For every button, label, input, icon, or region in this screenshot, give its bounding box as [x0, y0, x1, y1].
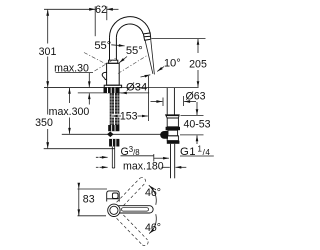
plan body [107, 191, 120, 202]
spout inner arc [116, 24, 143, 37]
aerator cap [143, 33, 150, 40]
wire 301/350 vertical dimension line [47, 10, 49, 12]
wire O63 extension left [162, 98, 164, 107]
svg-text:46°: 46° [145, 222, 161, 234]
wire 153 extension line [147, 76, 149, 121]
dashed swivel spout up line1 [117, 178, 140, 202]
wire 205 dimension lower arrow [197, 70, 199, 87]
wire 40-53 upper arrow [196, 102, 198, 115]
55 left leader arrow [111, 45, 124, 46]
svg-text:Ø63: Ø63 [185, 91, 205, 103]
base plate [104, 85, 121, 87]
wire 40-53 lower arrow [196, 135, 198, 144]
svg-text:max.180: max.180 [123, 161, 164, 173]
wire extension line A x=95.2 [94, 6, 96, 36]
wire 205 dimension upper arrow [197, 39, 199, 53]
wire 46 upper angle arc [149, 185, 156, 205]
wire 40-53 top extension [181, 115, 204, 117]
spout outer arc [109, 17, 150, 38]
svg-text:G11/4: G11/4 [180, 144, 210, 157]
dashed swivel spout down line2 [123, 215, 147, 240]
svg-text:max.300: max.300 [49, 106, 90, 118]
riser tube right line [115, 37, 117, 60]
dashed line right [118, 56, 147, 74]
drain tailpipe [170, 144, 172, 179]
svg-text:301: 301 [39, 46, 57, 58]
55 right leader arrow [119, 57, 127, 63]
pop-up rod [62, 133, 166, 135]
wire 83 dimension line [78, 189, 80, 216]
wire max.30 upper arrow [88, 73, 90, 88]
svg-text:83: 83 [83, 194, 95, 206]
svg-text:55°: 55° [126, 45, 143, 57]
svg-text:350: 350 [35, 117, 53, 129]
10 degree leader arrow [157, 67, 164, 72]
plan body line [107, 198, 120, 200]
mounting flange black [104, 88, 120, 93]
plan spout tube [119, 206, 154, 213]
wire O63 arrow right [184, 101, 196, 103]
wire G38 left arrow [96, 156, 102, 158]
wire max180 line to pipe [162, 166, 170, 168]
svg-text:62: 62 [95, 4, 107, 16]
wire 40-53 bottom extension [180, 134, 204, 136]
water stream line right [151, 40, 155, 74]
drain band2 black [167, 141, 180, 144]
drain flange [166, 115, 180, 118]
svg-text:max.30: max.30 [54, 62, 89, 74]
svg-text:153: 153 [120, 111, 138, 123]
plan view [78, 184, 108, 216]
rod joint diamond [107, 132, 114, 138]
wire top dimension line 62 left part [44, 8, 95, 10]
collar [109, 60, 118, 63]
wire extension line B x=106.8 [106, 6, 108, 20]
wire 83 upper arrow [78, 184, 80, 189]
riser tube left line [109, 37, 111, 60]
wire max.30 lower arrow [88, 93, 90, 104]
dashed handle open line upper-left [84, 53, 107, 65]
swivel ring outer [108, 204, 120, 216]
wire deck top line [44, 87, 199, 89]
wire 153 left arrow [112, 115, 121, 117]
wire 153 left arrow halo [111, 114, 121, 117]
plan body knob [112, 193, 118, 199]
dashed swivel down cap [142, 240, 148, 246]
svg-text:46°: 46° [145, 187, 161, 199]
wire max180 right arrow [176, 166, 187, 168]
lever handle hook [102, 72, 106, 79]
drain seal band black [166, 127, 180, 130]
wire 83 lower arrow [78, 210, 80, 216]
wire O34 leader arrow [121, 92, 127, 94]
wire bottom reference line 350 [44, 148, 115, 150]
wire max.300 upper arrow [69, 88, 71, 103]
wire G38 right tick [153, 154, 155, 162]
wire max.30 shelf line [56, 72, 94, 74]
wire deck extension left [44, 87, 104, 89]
wire O63 extension right [183, 96, 185, 106]
dashed swivel up cap [140, 178, 146, 184]
svg-text:G3/8: G3/8 [121, 145, 140, 158]
svg-text:40-53: 40-53 [183, 118, 210, 130]
faucet body [107, 63, 120, 85]
svg-text:Ø34: Ø34 [126, 82, 147, 94]
drain lower section [168, 130, 178, 136]
swivel ring inner [110, 206, 118, 214]
wire G38 underline [121, 155, 154, 157]
supply hose [112, 147, 114, 169]
drain fitting tube above flange [166, 88, 180, 178]
drain ball joint black [160, 131, 168, 139]
wire aerator height extension line [152, 37, 206, 39]
dashed line mid [95, 58, 117, 71]
153 dimension [111, 76, 148, 121]
shank nut black [108, 125, 119, 131]
wire max180 left arrow [96, 166, 99, 168]
wire top dimension line 62 right part [107, 8, 119, 10]
dashed swivel spout down line1 [117, 218, 143, 245]
water stream line left [145, 40, 153, 74]
threaded shank [110, 93, 120, 125]
wire 46 lower angle arc [149, 214, 156, 233]
G3/8 connection nuts black [109, 139, 119, 147]
wire deck bottom line [78, 92, 149, 94]
wire 83 bottom extension [78, 215, 107, 217]
wire O63 arrow left [151, 101, 163, 103]
plan spout slot [122, 208, 149, 211]
wire 153 right arrow [138, 115, 148, 117]
wire G38 right arrow [154, 157, 169, 159]
svg-text:55°: 55° [94, 40, 111, 52]
wire max.300 lower segment [69, 118, 71, 134]
svg-text:205: 205 [189, 59, 207, 71]
wire G114 underline [180, 155, 214, 157]
dashed swivel spout up line2 [123, 183, 145, 205]
10 degree angle arc [141, 75, 151, 77]
wire 83 top extension [78, 188, 108, 190]
svg-text:10°: 10° [164, 57, 181, 69]
drain body [167, 118, 178, 127]
